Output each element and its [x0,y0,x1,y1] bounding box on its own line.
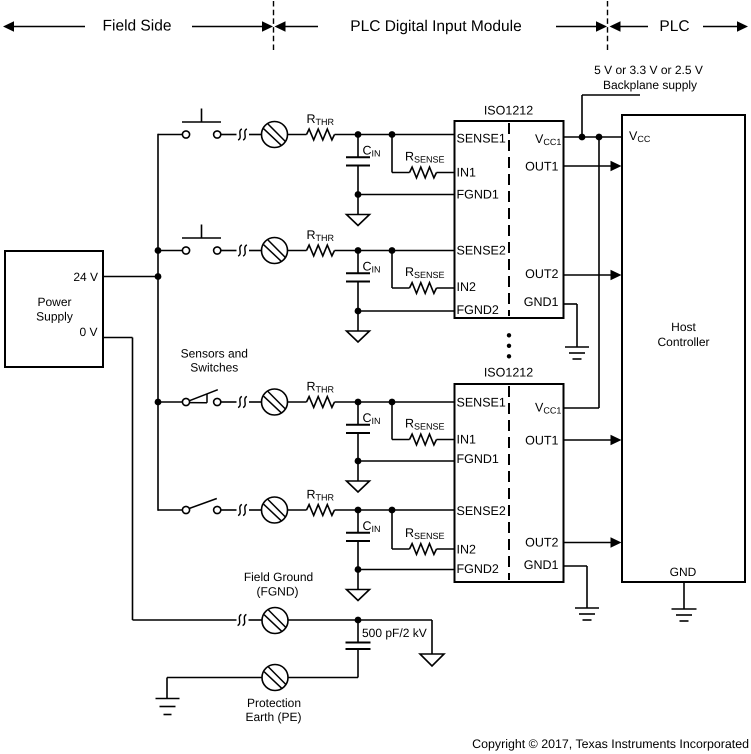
svg-text:RTHR: RTHR [307,380,335,395]
svg-text:OUT2: OUT2 [525,535,558,549]
svg-text:GND: GND [670,565,697,579]
svg-text:OUT1: OUT1 [525,434,558,448]
svg-text:OUT2: OUT2 [525,267,558,281]
svg-text:Controller: Controller [657,335,709,349]
svg-text:CIN: CIN [363,519,381,534]
svg-text:SENSE2: SENSE2 [457,504,506,518]
svg-text:Protection: Protection [247,696,301,710]
svg-text:Power: Power [37,295,71,309]
svg-text:PLC: PLC [659,18,689,35]
svg-text:Field Ground: Field Ground [244,570,313,584]
svg-text:RSENSE: RSENSE [405,417,445,432]
svg-text:Switches: Switches [190,360,238,374]
svg-text:CIN: CIN [363,411,381,426]
svg-text:CIN: CIN [363,260,381,275]
svg-text:Copyright © 2017, Texas Instru: Copyright © 2017, Texas Instruments Inco… [472,737,749,751]
svg-text:SENSE1: SENSE1 [457,132,506,146]
svg-text:FGND2: FGND2 [457,562,499,576]
svg-text:VCC: VCC [629,129,651,144]
svg-text:Supply: Supply [36,310,73,324]
svg-text:Host: Host [671,320,696,334]
svg-text:5 V or 3.3 V or 2.5 V: 5 V or 3.3 V or 2.5 V [594,63,703,77]
svg-text:SENSE1: SENSE1 [457,396,506,410]
svg-text:SENSE2: SENSE2 [457,243,506,257]
svg-text:(FGND): (FGND) [257,585,299,599]
svg-text:Backplane supply: Backplane supply [603,78,697,92]
svg-text:GND1: GND1 [524,558,559,572]
svg-text:FGND1: FGND1 [457,188,499,202]
svg-text:FGND2: FGND2 [457,303,499,317]
svg-text:IN2: IN2 [457,543,477,557]
svg-text:RSENSE: RSENSE [405,526,445,541]
svg-text:24 V: 24 V [73,270,98,284]
svg-text:IN1: IN1 [457,433,477,447]
svg-text:Sensors and: Sensors and [181,347,248,361]
svg-text:IN2: IN2 [457,280,477,294]
svg-text:ISO1212: ISO1212 [484,103,533,117]
svg-text:IN1: IN1 [457,166,477,180]
svg-text:CIN: CIN [363,144,381,159]
svg-text:PLC Digital Input Module: PLC Digital Input Module [350,18,521,35]
svg-text:GND1: GND1 [524,295,559,309]
svg-text:ISO1212: ISO1212 [484,366,533,380]
svg-text:OUT1: OUT1 [525,160,558,174]
svg-text:RSENSE: RSENSE [405,150,445,165]
svg-text:FGND1: FGND1 [457,452,499,466]
svg-text:RTHR: RTHR [307,228,335,243]
svg-text:Field Side: Field Side [103,18,172,35]
svg-text:500 pF/2 kV: 500 pF/2 kV [362,626,427,640]
svg-text:RTHR: RTHR [307,112,335,127]
svg-text:0 V: 0 V [79,325,97,339]
svg-text:Earth (PE): Earth (PE) [245,710,301,724]
svg-text:VCC1: VCC1 [535,132,561,147]
svg-text:RTHR: RTHR [307,488,335,503]
svg-text:RSENSE: RSENSE [405,265,445,280]
svg-text:VCC1: VCC1 [535,401,561,416]
